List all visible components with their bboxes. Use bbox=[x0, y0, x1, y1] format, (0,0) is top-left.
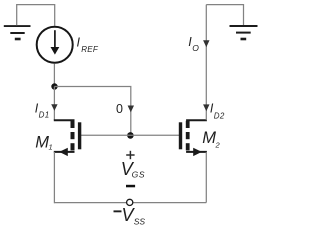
arrowhead ID1 current direction bbox=[51, 104, 57, 111]
svg-text:O: O bbox=[192, 43, 199, 53]
label M1 bbox=[35, 133, 52, 151]
svg-text:SS: SS bbox=[134, 217, 146, 227]
wire ground GND1 to current source top bbox=[17, 5, 55, 26]
transistor M2 (NMOS, gate on left) bbox=[179, 120, 207, 156]
label plus sign of VGS bbox=[126, 151, 134, 159]
wire current source bottom to node A bbox=[53, 64, 55, 87]
svg-text:D2: D2 bbox=[214, 111, 225, 120]
svg-text:0: 0 bbox=[116, 102, 123, 116]
wire top-right to ground GND2 bbox=[206, 5, 243, 25]
label -VSS bbox=[114, 205, 146, 227]
svg-text:1: 1 bbox=[49, 143, 53, 152]
ground GND1 (top-left) bbox=[4, 26, 31, 39]
node A junction dot bbox=[51, 83, 57, 89]
label IREF bbox=[77, 36, 99, 55]
label VGS bbox=[121, 159, 146, 179]
wire node A down to M1 drain (ID1 branch) bbox=[53, 87, 55, 121]
label ID1 bbox=[35, 101, 50, 119]
arrowhead ID2 current direction bbox=[203, 104, 209, 111]
wire bottom rail (-VSS) bbox=[54, 202, 206, 204]
current source IREF symbol bbox=[37, 27, 73, 63]
label minus sign of VGS bbox=[126, 185, 135, 188]
label ID2 bbox=[210, 102, 225, 121]
svg-text:2: 2 bbox=[215, 140, 221, 149]
wire M2 source down to bottom rail bbox=[205, 152, 207, 203]
transistor M1 (NMOS, gate on right) bbox=[54, 120, 82, 156]
svg-text:D1: D1 bbox=[39, 111, 50, 120]
label IO bbox=[188, 35, 199, 53]
svg-text:I: I bbox=[77, 36, 81, 50]
svg-text:GS: GS bbox=[132, 169, 146, 179]
wire gate rail M1 gate to M2 gate bbox=[81, 134, 179, 136]
wire right vertical IO / M2 drain branch bbox=[205, 5, 207, 121]
node B junction dot (gate node) bbox=[127, 132, 134, 139]
ground GND2 (top-right) bbox=[230, 26, 258, 39]
wire M1 source down to bottom rail bbox=[53, 152, 55, 203]
arrowhead zero gate current bbox=[128, 106, 134, 113]
wire node A to gate branch corner bbox=[54, 87, 130, 136]
arrowhead IO current direction bbox=[203, 40, 209, 47]
terminal -VSS open circle bbox=[127, 199, 133, 205]
svg-text:REF: REF bbox=[81, 45, 99, 54]
svg-text:M: M bbox=[202, 129, 216, 147]
label M2 bbox=[202, 129, 220, 150]
svg-text:M: M bbox=[35, 133, 49, 151]
